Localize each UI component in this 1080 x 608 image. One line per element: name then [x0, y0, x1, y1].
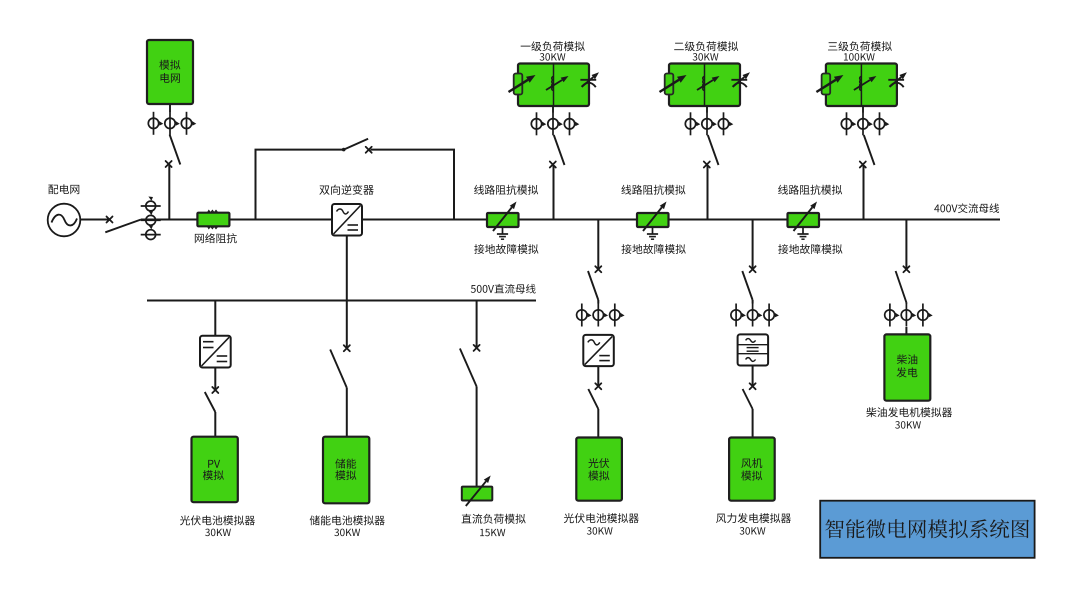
label 30KW (风机): [740, 527, 766, 535]
load box 三级负荷模拟: [816, 64, 907, 107]
load box 一级负荷模拟: [509, 64, 600, 107]
label 直流负荷模拟: [462, 514, 526, 524]
switch 二级负荷模拟: [704, 135, 719, 220]
switch 三级负荷模拟: [860, 135, 875, 220]
text 模拟 (风机): [741, 471, 762, 481]
label 接地故障模拟 #1: [474, 244, 538, 254]
converter box 风机: [738, 334, 769, 365]
text 模拟 (储能): [335, 470, 356, 480]
text 发电: [897, 367, 918, 377]
label 三级负荷模拟 100KW: [844, 53, 875, 61]
bypass wire right: [371, 150, 455, 220]
bypass contact X: [366, 147, 372, 153]
line impedance box 线路阻抗模拟 #2: [637, 202, 669, 232]
switch 直流负荷 branch: [474, 345, 480, 351]
ground fault 接地故障模拟 #2: [647, 227, 658, 239]
wire DC bus down 直流负荷: [476, 301, 478, 348]
line impedance box 线路阻抗模拟 #3: [788, 202, 820, 232]
fuse row 二级负荷模拟: [685, 112, 700, 135]
wire bus down 风机: [752, 220, 754, 269]
title box 智能微电网模拟系统图: [820, 501, 1034, 558]
ground fault 接地故障模拟 #1: [497, 227, 508, 239]
fuse row 柴油 branch: [885, 304, 900, 327]
wire bus down 光伏: [597, 220, 599, 269]
label 风力发电模拟器: [716, 513, 791, 523]
label 30KW (PV): [205, 529, 231, 537]
load box 二级负荷模拟: [660, 64, 751, 107]
title text: [825, 519, 1029, 538]
label 30KW (光伏AC): [587, 527, 613, 535]
wire box to fuses 二级负荷模拟: [706, 106, 708, 113]
wire converter to switch 光伏: [597, 366, 599, 385]
fuse row 风机 branch: [731, 304, 746, 327]
label 线路阻抗模拟 #1: [474, 185, 538, 195]
wire box to fuses 一级负荷模拟: [552, 106, 554, 113]
text PV: [208, 460, 220, 468]
text 模拟 (光伏): [588, 471, 609, 481]
AC bus 400V: [141, 219, 1000, 221]
ground fault 接地故障模拟 #3: [797, 227, 808, 239]
label 配电网: [48, 184, 79, 194]
switch 柴油 branch: [903, 266, 909, 272]
wind sim box 风机模拟: [729, 438, 775, 501]
bypass wire left+top: [256, 150, 344, 220]
label 光伏电池模拟器 (AC): [564, 513, 639, 523]
storage box 储能模拟: [323, 437, 369, 504]
label 储能电池模拟器: [310, 515, 385, 525]
label 一级负荷模拟: [521, 41, 585, 51]
contact X of grid switch: [107, 217, 113, 223]
grid simulator box 模拟电网: [147, 40, 193, 104]
switch 储能 branch: [344, 345, 350, 351]
converter box 光伏: [583, 335, 614, 366]
label 二级负荷模拟 30KW: [693, 53, 719, 61]
label 柴油发电机模拟器: [866, 407, 952, 417]
switch PV branch: [212, 387, 218, 393]
wire source to switch: [80, 219, 109, 221]
switch (lower) 光伏 branch: [595, 383, 601, 389]
DC/DC converter box (PV): [200, 336, 231, 368]
text 柴油: [897, 354, 917, 364]
switch (upper) 光伏 branch: [595, 266, 601, 272]
label 接地故障模拟 #3: [778, 244, 842, 254]
switch 模拟电网 branch: [166, 135, 181, 220]
text 储能: [335, 459, 356, 469]
switch 一级负荷模拟: [550, 135, 565, 220]
label 30KW (柴油): [895, 421, 921, 429]
PV box PV模拟: [192, 437, 238, 503]
line impedance box 线路阻抗模拟 #1: [487, 202, 519, 232]
label 线路阻抗模拟 #3: [778, 185, 842, 195]
fuse row under 模拟电网: [148, 112, 163, 135]
label 线路阻抗模拟 #2: [621, 185, 685, 195]
label 双向逆变器: [319, 185, 373, 195]
PV sim box 光伏模拟: [576, 438, 622, 501]
text 风机: [741, 458, 762, 468]
label 15KW: [480, 529, 505, 536]
network impedance box 网络阻抗: [197, 211, 229, 229]
switch (lower) 风机 branch: [750, 383, 756, 389]
diesel box 柴油发电: [884, 334, 930, 400]
wire fuse to diesel box: [905, 327, 907, 335]
wire converter to switch 风机: [752, 366, 754, 386]
DC bus 500V: [147, 300, 536, 302]
bypass switch blade: [344, 139, 368, 150]
label 400V交流母线: [934, 203, 999, 213]
label 一级负荷模拟 30KW: [540, 53, 566, 61]
wire converter to switch (PV): [214, 368, 216, 390]
AC source circle (配电网): [48, 204, 81, 237]
label 网络阻抗: [195, 233, 237, 243]
wire DC bus down PV: [214, 301, 216, 336]
bypass hinge dot: [342, 148, 346, 152]
text 模拟 (PV): [203, 470, 224, 480]
fuse row 三级负荷模拟: [841, 112, 856, 135]
label 30KW (储能): [334, 529, 360, 537]
fuse row 一级负荷模拟: [531, 112, 546, 135]
wire inverter to DC bus: [346, 236, 348, 301]
switch (upper) 风机 branch: [750, 266, 756, 272]
text 模拟: [159, 60, 180, 70]
3-phase fuse stack: [141, 197, 161, 211]
label 二级负荷模拟: [674, 41, 738, 51]
text 电网: [161, 73, 180, 83]
text 光伏: [588, 458, 609, 468]
label 500V直流母线: [471, 284, 536, 294]
wire box to fuses: [169, 104, 171, 112]
fuse row 光伏 branch: [577, 304, 592, 327]
inverter box U1: [332, 204, 362, 236]
DC load box 直流负荷: [462, 476, 493, 507]
label 三级负荷模拟: [828, 41, 892, 51]
grid switch blade: [105, 220, 141, 233]
label 光伏电池模拟器 (DC): [180, 515, 255, 525]
wire DC bus down 储能: [346, 301, 348, 348]
wire bus down 柴油: [905, 220, 907, 269]
label 接地故障模拟 #2: [622, 244, 686, 254]
wire box to fuses 三级负荷模拟: [862, 106, 864, 113]
